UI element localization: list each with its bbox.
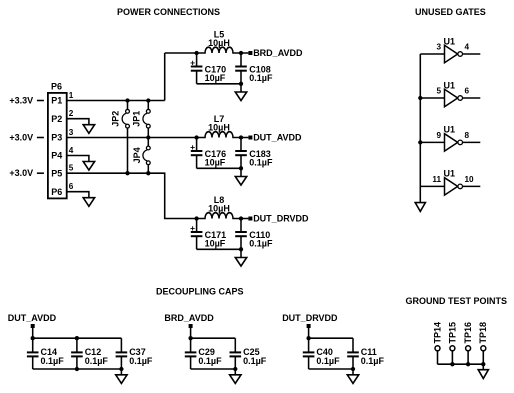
svg-text:0.1µF: 0.1µF [41, 356, 65, 366]
inverter U1 (9/8) [444, 125, 463, 151]
svg-text:4: 4 [69, 146, 74, 155]
svg-text:BRD_AVDD: BRD_AVDD [164, 313, 214, 323]
inductor L7 [197, 114, 249, 138]
inverter U1 (5/6) [444, 80, 463, 106]
capacitor C40 (0.1uF) [303, 338, 340, 369]
junction on +3.3V rail at JP1 [146, 98, 150, 102]
junction left of L5 [194, 51, 198, 55]
wire P6 pin 2 to ground [67, 119, 89, 125]
capacitor C176 (polarized 10uF) [190, 138, 226, 169]
svg-text:U1: U1 [444, 169, 456, 179]
net terminal BRD_AVDD (decoupling) [189, 324, 193, 328]
svg-text:10µH: 10µH [208, 203, 230, 213]
capacitor C171 (polarized 10uF) [190, 219, 226, 250]
wire top rail BRD_AVDD caps [191, 337, 236, 339]
junction ground rail C110 [239, 247, 243, 251]
wire output of U1 pin 10 [463, 185, 481, 187]
wire to ground under C183 [240, 168, 242, 176]
capacitor C11 (0.1uF) [347, 338, 384, 369]
capacitor C25 (0.1uF) [230, 338, 267, 369]
wire +3.3V rail to L5 input [165, 52, 197, 54]
svg-text:TP15: TP15 [447, 322, 457, 344]
svg-text:10µH: 10µH [208, 122, 230, 132]
wire to ground (test points) [482, 364, 484, 370]
net +3.0V (P5) [9, 168, 43, 178]
svg-text:4: 4 [465, 43, 470, 52]
wire P6 pin 6 to ground [67, 192, 89, 198]
net terminal BRD_AVDD [248, 51, 252, 55]
svg-text:6: 6 [69, 182, 74, 191]
junction on +3.3V rail at JP2 [125, 98, 129, 102]
svg-text:0.1µF: 0.1µF [249, 239, 273, 249]
wire BRD_AVDD to cap rail [190, 328, 192, 338]
wire +3.3V rail up to L5 [164, 53, 166, 101]
junction ground rail C108 [239, 82, 243, 86]
svg-text:0.1µF: 0.1µF [243, 356, 267, 366]
junction rail at TP18 [481, 362, 485, 366]
svg-text:8: 8 [465, 131, 470, 140]
ground (DUT_AVDD decoupling) [116, 375, 127, 384]
svg-text:DUT_AVDD: DUT_AVDD [253, 132, 302, 142]
junction left of L8 [194, 216, 198, 220]
inductor L8 [197, 195, 249, 219]
svg-text:TP18: TP18 [478, 322, 488, 344]
net +3.3V [9, 96, 43, 106]
svg-text:JP1: JP1 [131, 111, 141, 127]
capacitor C183 (0.1uF) [235, 138, 273, 169]
junction rail at TP15 [450, 362, 454, 366]
svg-text:U1: U1 [444, 125, 456, 135]
junction on P3 rail at JP1/JP4 [146, 135, 150, 139]
capacitor C37 (0.1uF) [116, 338, 153, 369]
capacitor C12 (0.1uF) [71, 338, 108, 369]
svg-text:JP2: JP2 [110, 111, 120, 127]
wire to ground under C108 [240, 84, 242, 92]
svg-text:JP4: JP4 [132, 147, 142, 163]
svg-text:10µF: 10µF [205, 239, 226, 249]
net +3.0V (P3) [9, 133, 43, 143]
svg-text:0.1µF: 0.1µF [129, 356, 153, 366]
svg-text:UNUSED GATES: UNUSED GATES [415, 7, 486, 17]
connector P6 [48, 82, 67, 199]
svg-text:10µF: 10µF [205, 73, 226, 83]
svg-text:0.1µF: 0.1µF [249, 158, 273, 168]
svg-text:GROUND TEST POINTS: GROUND TEST POINTS [406, 296, 508, 306]
svg-text:TP14: TP14 [432, 322, 442, 344]
svg-text:2: 2 [69, 109, 74, 118]
junction top rail at C12 [75, 336, 79, 340]
svg-text:0.1µF: 0.1µF [361, 356, 385, 366]
wire ground rail under C176/C183 [197, 167, 241, 169]
svg-text:9: 9 [436, 131, 441, 140]
junction bus at gate 2 [418, 96, 422, 100]
junction bus at gate 3 [418, 140, 422, 144]
net terminal DUT_DRVDD (decoupling) [307, 324, 311, 328]
inverter U1 (11/10) [444, 169, 463, 195]
wire top rail DUT_AVDD caps [33, 337, 122, 339]
svg-text:5: 5 [69, 164, 74, 173]
junction right of L5 [239, 51, 243, 55]
svg-text:+: + [190, 57, 195, 67]
wire bottom rail DUT_AVDD caps [33, 368, 122, 370]
svg-text:P4: P4 [51, 151, 62, 161]
svg-text:0.1µF: 0.1µF [316, 356, 340, 366]
svg-text:+3.0V: +3.0V [9, 133, 33, 143]
wire test point rail [438, 363, 484, 365]
test point TP15 [447, 322, 457, 364]
junction top rail at C40 [306, 336, 310, 340]
wire output of U1 pin 4 [463, 53, 481, 55]
test point TP14 [432, 322, 442, 364]
svg-text:P1: P1 [51, 96, 62, 106]
wire P6 pin 1 (+3.3V rail) [67, 100, 165, 102]
junction on P5 rail at JP4 [146, 171, 150, 175]
net terminal DUT_AVDD (decoupling) [31, 324, 35, 328]
capacitor C108 (0.1uF) [235, 53, 273, 84]
ground (gates bus) [415, 203, 425, 212]
svg-text:0.1µF: 0.1µF [85, 356, 109, 366]
wire P6 pin 4 to ground [67, 156, 89, 162]
ground (P6 pin 2) [83, 125, 94, 134]
wire to ground DUT_DRVDD caps [352, 369, 354, 375]
svg-text:3: 3 [436, 43, 441, 52]
test point TP16 [463, 322, 473, 364]
junction on P5 rail at JP2 [125, 171, 129, 175]
junction top rail at C29 [188, 336, 192, 340]
wire output of U1 pin 6 [463, 97, 481, 99]
wire bottom rail DUT_DRVDD caps [309, 368, 353, 370]
wire bottom rail BRD_AVDD caps [191, 368, 236, 370]
svg-text:P6: P6 [51, 82, 62, 92]
svg-text:+3.3V: +3.3V [9, 96, 33, 106]
svg-text:11: 11 [432, 175, 441, 184]
capacitor C14 (0.1uF) [27, 338, 64, 369]
svg-text:P3: P3 [51, 133, 62, 143]
junction right of L8 [239, 216, 243, 220]
capacitor C110 (0.1uF) [235, 219, 273, 250]
junction left of L7 [194, 135, 198, 139]
ground (filter row L7) [235, 177, 246, 186]
svg-text:U1: U1 [444, 36, 456, 46]
ground (filter row L5) [235, 92, 246, 101]
junction top rail at C14 [31, 336, 35, 340]
junction right of L7 [239, 135, 243, 139]
inverter U1 (3/4) [444, 36, 463, 62]
junction rail at TP16 [466, 362, 470, 366]
wire input to gate U1 pin 9 [420, 141, 444, 143]
net terminal DUT_DRVDD [248, 217, 252, 221]
svg-text:0.1µF: 0.1µF [198, 356, 222, 366]
wire to ground DUT_AVDD caps [120, 369, 122, 375]
svg-text:POWER CONNECTIONS: POWER CONNECTIONS [117, 7, 220, 17]
ground (P6 pin 4) [83, 162, 94, 171]
junction bottom rail at C25 [233, 367, 237, 371]
wire DUT_AVDD to cap rail [32, 328, 34, 338]
svg-text:10: 10 [465, 175, 475, 184]
wire DUT_DRVDD to cap rail [308, 328, 310, 338]
svg-text:+: + [190, 142, 195, 152]
wire to ground BRD_AVDD caps [234, 369, 236, 375]
junction ground rail C183 [239, 166, 243, 170]
jumper JP1 [131, 101, 150, 138]
wire top rail DUT_DRVDD caps [309, 337, 353, 339]
jumper JP2 [110, 101, 129, 174]
svg-text:P6: P6 [51, 187, 62, 197]
capacitor C170 (polarized 10uF) [190, 53, 226, 84]
svg-text:10µF: 10µF [205, 158, 226, 168]
junction bottom rail at C11 [351, 367, 355, 371]
wire input to gate U1 pin 3 [420, 53, 444, 55]
svg-text:0.1µF: 0.1µF [249, 73, 273, 83]
svg-text:BRD_AVDD: BRD_AVDD [253, 48, 303, 58]
net terminal DUT_AVDD [248, 136, 252, 140]
svg-text:P2: P2 [51, 114, 62, 124]
wire gates input bus [419, 54, 421, 203]
junction bottom rail at C37 [119, 367, 123, 371]
wire output of U1 pin 8 [463, 141, 481, 143]
test point TP18 [478, 322, 488, 364]
svg-text:DUT_DRVDD: DUT_DRVDD [282, 313, 338, 323]
wire input to gate U1 pin 11 [420, 185, 444, 187]
inductor L5 [197, 29, 249, 53]
capacitor C29 (0.1uF) [185, 338, 222, 369]
ground (test points) [478, 370, 488, 379]
svg-text:+3.0V: +3.0V [9, 168, 33, 178]
ground (filter row L8) [235, 258, 246, 267]
svg-text:DECOUPLING CAPS: DECOUPLING CAPS [156, 287, 244, 297]
jumper JP4 [132, 138, 150, 174]
svg-text:P5: P5 [51, 168, 62, 178]
svg-text:DUT_DRVDD: DUT_DRVDD [253, 213, 309, 223]
svg-text:6: 6 [465, 87, 470, 96]
ground (BRD_AVDD decoupling) [230, 375, 241, 384]
wire P6 pin 3 (+3.0V rail to L7) [67, 137, 197, 139]
svg-text:1: 1 [69, 91, 74, 100]
wire to ground under C110 [240, 249, 242, 257]
wire input to gate U1 pin 5 [420, 97, 444, 99]
wire ground rail under C170/C108 [197, 83, 241, 85]
wire ground rail under C171/C110 [197, 248, 241, 250]
svg-text:10µH: 10µH [208, 38, 230, 48]
svg-text:DUT_AVDD: DUT_AVDD [8, 313, 57, 323]
junction bottom rail at C12 [75, 367, 79, 371]
wire P6 pin 5 (+3.0V rail to L8) [67, 173, 197, 218]
ground (P6 pin 6) [83, 198, 94, 207]
svg-text:5: 5 [436, 87, 441, 96]
svg-text:TP16: TP16 [463, 322, 473, 344]
svg-text:U1: U1 [444, 80, 456, 90]
ground (DUT_DRVDD decoupling) [347, 375, 358, 384]
svg-text:3: 3 [69, 128, 74, 137]
svg-text:+: + [190, 223, 195, 233]
